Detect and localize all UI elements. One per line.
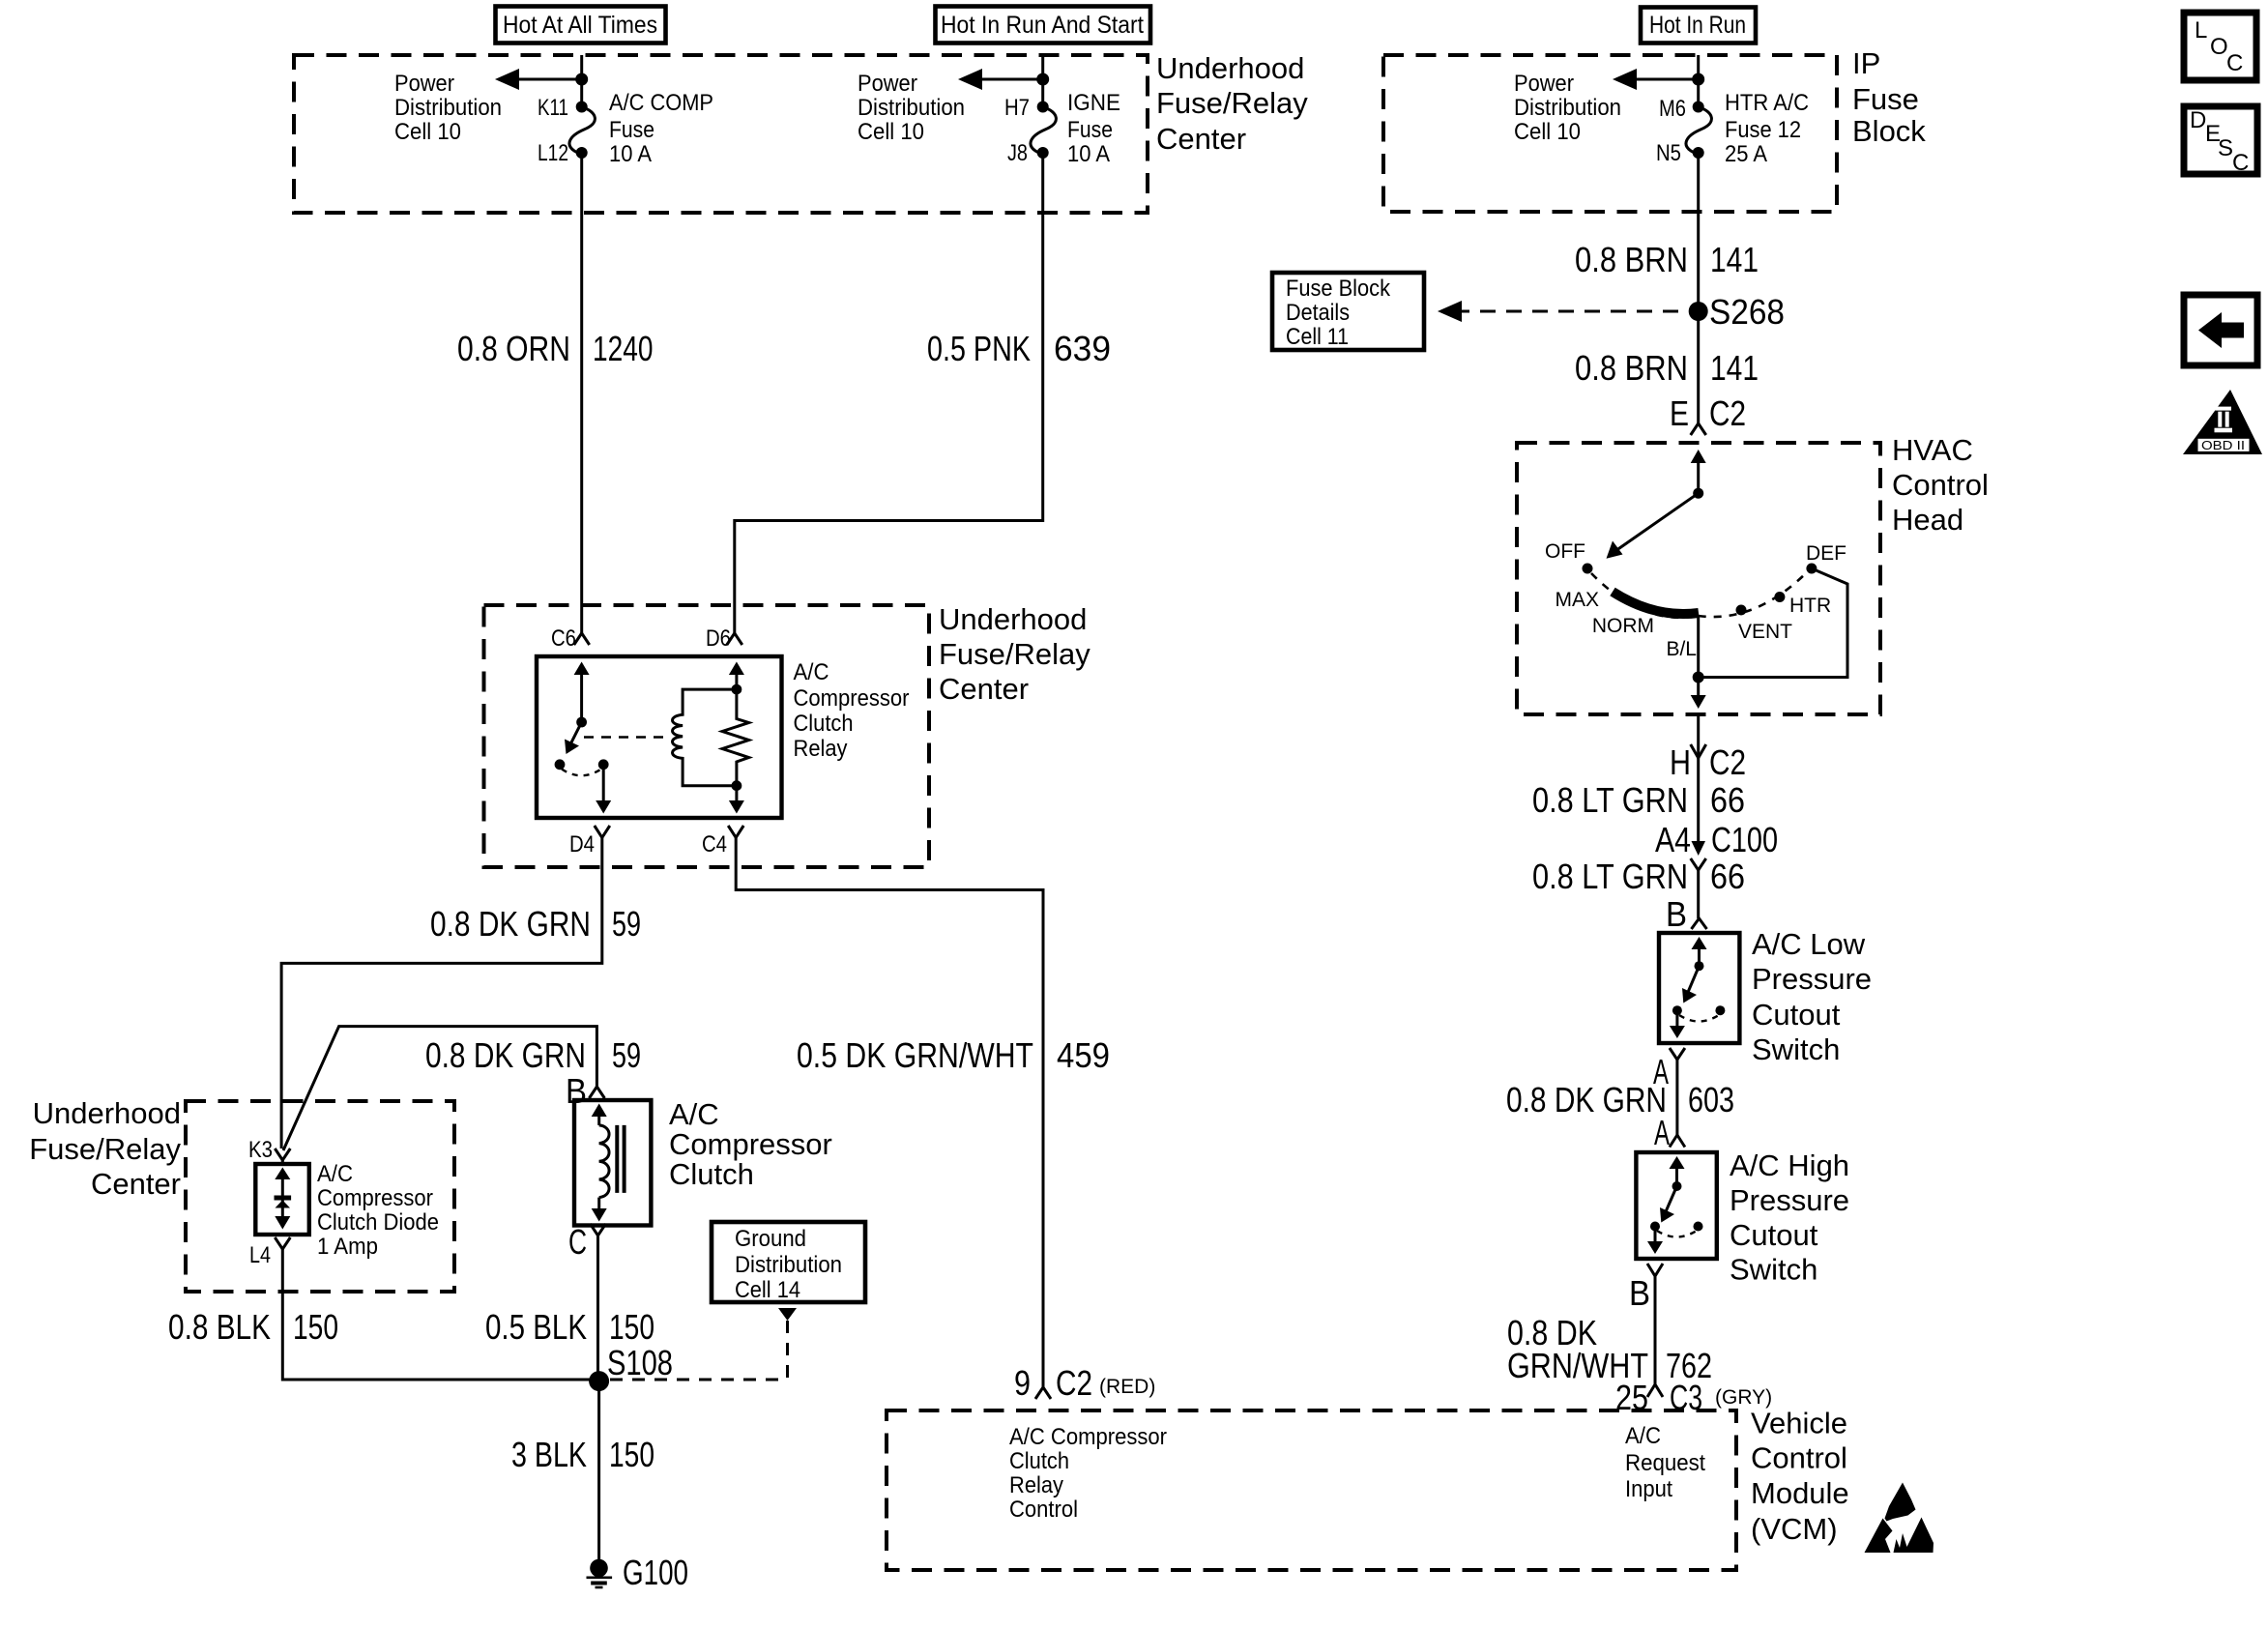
node HTR contact xyxy=(1774,592,1785,602)
wire arrow to Power Distribution Cell 10 (middle) xyxy=(958,69,1043,90)
svg-text:L4: L4 xyxy=(249,1242,271,1268)
svg-text:0.5 DK GRN/WHT: 0.5 DK GRN/WHT xyxy=(797,1035,1033,1075)
svg-text:0.8 LT GRN: 0.8 LT GRN xyxy=(1532,780,1688,820)
wire 0.5 DK GRN/WHT 459 from C4 to VCM xyxy=(736,837,1043,1387)
wire rotary output to C2 pin H xyxy=(1697,616,1700,678)
label Power Distribution Cell 10 (left) xyxy=(394,71,502,145)
wire arrow to Power Distribution Cell 10 (left) xyxy=(495,69,582,90)
module box Underhood Fuse/Relay Center (top) xyxy=(294,55,1148,213)
wire battery feed to fuse K11 xyxy=(580,55,583,106)
value label HTR A/C Fuse 12 25 A xyxy=(1725,90,1809,167)
component box A/C Compressor Clutch xyxy=(574,1100,651,1226)
svg-text:9: 9 xyxy=(1014,1363,1031,1403)
module box Underhood Fuse/Relay Center (diode) xyxy=(186,1101,454,1292)
svg-text:C2: C2 xyxy=(1056,1363,1092,1403)
svg-text:0.8 BRN: 0.8 BRN xyxy=(1575,348,1688,388)
node DEF contact xyxy=(1806,564,1817,574)
svg-text:Switch: Switch xyxy=(1730,1253,1817,1287)
wire dashed to Ground Distribution xyxy=(610,1308,797,1380)
svg-text:VENT: VENT xyxy=(1738,621,1792,643)
reference box Ground Distribution Cell 14 xyxy=(712,1222,865,1303)
icon LOC xyxy=(2184,13,2256,80)
svg-text:Fuse/Relay: Fuse/Relay xyxy=(29,1132,181,1166)
svg-text:Head: Head xyxy=(1892,503,1963,537)
svg-text:B: B xyxy=(1666,894,1687,934)
clutch plates xyxy=(617,1125,624,1193)
connector A4 C100 xyxy=(1655,820,1778,870)
svg-text:150: 150 xyxy=(293,1307,338,1347)
node rotary pivot xyxy=(1693,488,1703,499)
rotary dashed contact arc xyxy=(1591,573,1699,618)
wire 0.8 LT GRN 66 lower xyxy=(1697,870,1700,918)
svg-text:D4: D4 xyxy=(569,831,595,858)
svg-text:A/C: A/C xyxy=(1625,1423,1661,1449)
svg-text:Center: Center xyxy=(1156,122,1246,156)
svg-text:Pressure: Pressure xyxy=(1752,962,1872,996)
svg-text:10 A: 10 A xyxy=(609,141,652,167)
component box A/C Low Pressure Cutout Switch xyxy=(1659,933,1739,1043)
svg-text:59: 59 xyxy=(612,1035,641,1075)
fuse HTR A/C Fuse 12 25 A xyxy=(1686,102,1711,160)
svg-text:Hot In Run And Start: Hot In Run And Start xyxy=(941,12,1144,39)
module box HVAC Control Head xyxy=(1517,443,1880,714)
pin B of clutch xyxy=(566,1071,604,1111)
pin D6 of relay xyxy=(706,625,742,652)
svg-text:10 A: 10 A xyxy=(1067,141,1110,167)
pin E connector C2 xyxy=(1670,393,1746,435)
relay coil feed arrow up xyxy=(729,662,744,690)
label A/C Compressor Clutch Relay Control xyxy=(1009,1424,1167,1523)
component box A/C Compressor Clutch Diode xyxy=(255,1164,309,1235)
svg-text:C: C xyxy=(2226,50,2243,76)
node VENT contact xyxy=(1736,605,1747,616)
label IP Fuse Block xyxy=(1852,46,1926,148)
relay switch contact xyxy=(555,662,612,814)
pin D4 of relay xyxy=(569,826,610,858)
wire 3 BLK 150 xyxy=(597,1381,600,1559)
svg-text:0.8 DK GRN: 0.8 DK GRN xyxy=(1506,1080,1667,1119)
label Power Distribution Cell 10 (right) xyxy=(1514,71,1621,145)
svg-text:0.5 BLK: 0.5 BLK xyxy=(485,1307,587,1347)
svg-text:Control: Control xyxy=(1009,1497,1078,1523)
svg-text:Distribution: Distribution xyxy=(735,1252,842,1278)
svg-text:S268: S268 xyxy=(1709,292,1785,332)
svg-text:Control: Control xyxy=(1751,1441,1847,1475)
svg-text:Compressor: Compressor xyxy=(317,1185,433,1211)
svg-text:J8: J8 xyxy=(1007,140,1028,166)
svg-text:Fuse: Fuse xyxy=(1852,82,1919,116)
svg-text:(VCM): (VCM) xyxy=(1751,1512,1838,1546)
pin K3 of diode xyxy=(248,1137,290,1164)
svg-text:Pressure: Pressure xyxy=(1730,1183,1849,1217)
label A/C Low Pressure Cutout Switch xyxy=(1752,927,1872,1066)
pin A of low pressure switch xyxy=(1653,1048,1685,1091)
svg-text:B: B xyxy=(1629,1273,1650,1313)
value label 0.8 BLK 150 xyxy=(168,1307,338,1347)
pin A of high pressure switch xyxy=(1654,1113,1685,1152)
svg-text:HTR A/C: HTR A/C xyxy=(1725,90,1809,116)
svg-text:IP: IP xyxy=(1852,46,1880,80)
svg-text:D: D xyxy=(2190,107,2206,133)
wire 0.8 BRN 141 upper xyxy=(1697,153,1700,423)
pin B of high pressure switch xyxy=(1629,1264,1663,1313)
svg-text:A: A xyxy=(1654,1113,1670,1152)
wire 0.8 DK GRN 59 branch to clutch xyxy=(283,1027,596,1150)
relay linkage dashed xyxy=(584,736,663,739)
rotary thick contact band MAX-NORM-B/L xyxy=(1613,592,1699,614)
node OFF contact xyxy=(1583,564,1593,574)
svg-text:C: C xyxy=(568,1222,587,1262)
svg-text:A/C High: A/C High xyxy=(1730,1148,1849,1182)
value label 0.8 DK GRN 59 upper xyxy=(430,904,641,944)
node junction at H7 feed xyxy=(1036,73,1049,86)
flag Hot In Run And Start xyxy=(936,7,1151,44)
svg-text:141: 141 xyxy=(1710,348,1759,388)
switch contact (high pressure switch) xyxy=(1647,1156,1703,1254)
svg-text:0.8 LT GRN: 0.8 LT GRN xyxy=(1532,857,1688,896)
wire down arrow to box edge xyxy=(1691,678,1706,710)
component box A/C High Pressure Cutout Switch xyxy=(1636,1152,1716,1259)
svg-text:Center: Center xyxy=(91,1167,181,1201)
label Underhood Fuse/Relay Center (diode) xyxy=(29,1096,181,1201)
svg-text:(RED): (RED) xyxy=(1099,1376,1155,1398)
svg-text:Fuse/Relay: Fuse/Relay xyxy=(939,637,1090,671)
label A/C Request Input xyxy=(1625,1423,1705,1502)
svg-text:OFF: OFF xyxy=(1545,540,1585,563)
value label 0.8 ORN 1240 xyxy=(457,329,654,368)
svg-text:Fuse Block: Fuse Block xyxy=(1286,276,1391,302)
relay coil output arrow down xyxy=(729,786,744,814)
value label 0.8 DK GRN 59 lower xyxy=(425,1035,641,1075)
svg-text:459: 459 xyxy=(1057,1035,1110,1075)
svg-text:Cell 10: Cell 10 xyxy=(858,119,924,145)
value label 0.5 BLK 150 xyxy=(485,1307,654,1347)
svg-text:Relay: Relay xyxy=(794,736,848,762)
node S268 xyxy=(1689,292,1785,332)
value label 0.8 BRN 141 upper xyxy=(1575,240,1759,279)
svg-text:Cutout: Cutout xyxy=(1752,998,1841,1032)
svg-text:A/C: A/C xyxy=(317,1161,353,1187)
pin C of clutch xyxy=(568,1222,606,1262)
pin 25 connector C3 (GRY) xyxy=(1615,1378,1772,1417)
svg-text:1240: 1240 xyxy=(593,329,654,368)
wire 0.8 BLK 150 xyxy=(282,1249,593,1380)
svg-text:Power: Power xyxy=(394,71,454,97)
svg-text:A/C Low: A/C Low xyxy=(1752,927,1866,961)
svg-text:1 Amp: 1 Amp xyxy=(317,1234,378,1260)
node junction at K11 feed xyxy=(575,73,588,86)
svg-text:C100: C100 xyxy=(1711,820,1778,859)
svg-text:Cell 14: Cell 14 xyxy=(735,1277,800,1303)
svg-text:66: 66 xyxy=(1710,780,1745,820)
svg-text:K3: K3 xyxy=(248,1137,273,1163)
module box Vehicle Control Module (VCM) xyxy=(887,1410,1736,1570)
fuse A/C COMP Fuse 10 A xyxy=(569,102,595,160)
svg-text:Input: Input xyxy=(1625,1476,1672,1502)
svg-text:G100: G100 xyxy=(623,1553,688,1592)
wire 0.8 DK GRN 603 xyxy=(1675,1060,1678,1135)
svg-text:0.8 DK GRN: 0.8 DK GRN xyxy=(430,904,591,944)
component box A/C Compressor Clutch Relay xyxy=(537,656,782,818)
node junction at M6 feed xyxy=(1692,73,1704,86)
pin 9 connector C2 (RED) xyxy=(1014,1363,1155,1403)
svg-text:Fuse: Fuse xyxy=(609,117,654,143)
svg-text:O: O xyxy=(2210,34,2228,60)
wire 0.8 BRN 141 lower xyxy=(1575,348,1759,388)
svg-text:Hot In Run: Hot In Run xyxy=(1649,12,1746,39)
svg-text:0.5 PNK: 0.5 PNK xyxy=(927,329,1031,368)
svg-text:Clutch: Clutch xyxy=(794,711,854,737)
ESD sensitivity symbol xyxy=(1865,1483,1934,1554)
wire arrow to Power Distribution Cell 10 (right) xyxy=(1613,69,1699,90)
svg-text:B/L: B/L xyxy=(1666,638,1697,660)
wire 0.8 DK GRN 59 from D4 xyxy=(281,837,602,1148)
node S108 xyxy=(589,1343,673,1391)
wire 0.8 LT GRN 66 upper xyxy=(1697,714,1700,851)
pin C4 of relay xyxy=(702,826,743,858)
icon OBD II xyxy=(2183,390,2262,454)
svg-text:Underhood: Underhood xyxy=(1156,51,1304,85)
svg-text:A/C: A/C xyxy=(669,1097,719,1131)
svg-text:150: 150 xyxy=(609,1435,654,1474)
svg-text:Block: Block xyxy=(1852,114,1926,148)
svg-text:603: 603 xyxy=(1688,1080,1734,1119)
label Vehicle Control Module (VCM) xyxy=(1751,1407,1849,1547)
svg-text:HTR: HTR xyxy=(1789,595,1831,617)
svg-text:150: 150 xyxy=(609,1307,654,1347)
svg-text:Ground: Ground xyxy=(735,1226,806,1252)
label Power Distribution Cell 10 (middle) xyxy=(858,71,965,145)
value label 0.5 DK GRN/WHT 459 xyxy=(797,1035,1110,1075)
svg-text:3 BLK: 3 BLK xyxy=(511,1435,587,1474)
svg-text:Control: Control xyxy=(1892,468,1989,502)
svg-text:Cutout: Cutout xyxy=(1730,1218,1818,1252)
module box IP Fuse Block xyxy=(1383,55,1837,212)
svg-text:Hot At All Times: Hot At All Times xyxy=(503,12,657,39)
node rotary output junction xyxy=(1693,672,1704,683)
svg-text:D6: D6 xyxy=(706,625,731,652)
svg-text:A/C: A/C xyxy=(794,659,829,685)
wire dashed arrow to Fuse Block Details xyxy=(1438,301,1694,322)
svg-text:N5: N5 xyxy=(1656,140,1681,166)
label Underhood Fuse/Relay Center (relay) xyxy=(939,602,1090,706)
svg-text:Distribution: Distribution xyxy=(1514,95,1621,121)
pin C6 of relay xyxy=(551,625,590,652)
flag Hot In Run xyxy=(1641,8,1756,44)
icon back arrow xyxy=(2184,295,2257,365)
reference box Fuse Block Details Cell 11 xyxy=(1272,273,1424,350)
ground G100 xyxy=(587,1553,689,1592)
svg-text:Compressor: Compressor xyxy=(669,1127,832,1161)
svg-text:59: 59 xyxy=(612,904,641,944)
svg-text:0.8 BLK: 0.8 BLK xyxy=(168,1307,271,1347)
svg-text:Underhood: Underhood xyxy=(939,602,1087,636)
wire 0.8 ORN 1240 xyxy=(580,153,583,633)
svg-text:66: 66 xyxy=(1710,857,1745,896)
svg-text:Relay: Relay xyxy=(1009,1472,1063,1498)
svg-text:Center: Center xyxy=(939,672,1029,706)
svg-text:Fuse: Fuse xyxy=(1067,117,1113,143)
svg-text:Distribution: Distribution xyxy=(858,95,965,121)
svg-text:A4: A4 xyxy=(1655,820,1691,859)
pin L4 of diode xyxy=(249,1237,290,1268)
switch contact B (low pressure switch) xyxy=(1670,937,1726,1038)
wire 0.5 BLK 150 xyxy=(596,1236,599,1380)
svg-text:C6: C6 xyxy=(551,625,576,652)
svg-text:141: 141 xyxy=(1710,240,1759,279)
svg-text:Underhood: Underhood xyxy=(33,1096,181,1130)
pin H connector C2 xyxy=(1670,742,1746,782)
svg-text:Module: Module xyxy=(1751,1476,1849,1510)
svg-text:Switch: Switch xyxy=(1752,1032,1840,1066)
svg-text:C2: C2 xyxy=(1709,742,1746,782)
value label A/C COMP Fuse 10 A xyxy=(609,90,713,167)
svg-text:A/C COMP: A/C COMP xyxy=(609,90,713,116)
svg-text:C: C xyxy=(2232,150,2249,176)
svg-text:Cell 10: Cell 10 xyxy=(1514,119,1581,145)
module box Underhood Fuse/Relay Center (relay) xyxy=(484,605,930,867)
svg-text:L12: L12 xyxy=(538,140,568,166)
wire ignition feed to fuse H7 xyxy=(1041,55,1044,106)
svg-text:H: H xyxy=(1670,742,1691,782)
relay coil xyxy=(673,684,742,786)
wire run feed to fuse M6 xyxy=(1697,55,1700,106)
svg-text:E: E xyxy=(1670,393,1689,433)
relay coil resistor xyxy=(722,689,749,791)
svg-text:0.8 ORN: 0.8 ORN xyxy=(457,329,570,368)
svg-text:Fuse 12: Fuse 12 xyxy=(1725,117,1801,143)
svg-text:Details: Details xyxy=(1286,300,1350,326)
svg-text:A/C Compressor: A/C Compressor xyxy=(1009,1424,1167,1450)
svg-text:639: 639 xyxy=(1054,329,1111,368)
svg-text:0.8 BRN: 0.8 BRN xyxy=(1575,240,1688,279)
value label 0.5 PNK 639 xyxy=(927,329,1111,368)
svg-text:C2: C2 xyxy=(1709,393,1746,433)
svg-text:Clutch Diode: Clutch Diode xyxy=(317,1209,439,1236)
svg-text:NORM: NORM xyxy=(1592,615,1654,637)
wire 0.5 PNK 639 xyxy=(735,153,1043,633)
svg-text:L: L xyxy=(2195,17,2207,44)
svg-text:S: S xyxy=(2218,135,2233,161)
svg-text:HVAC: HVAC xyxy=(1892,433,1973,467)
svg-text:Power: Power xyxy=(1514,71,1574,97)
svg-text:Cell 10: Cell 10 xyxy=(394,119,461,145)
label A/C Compressor Clutch Relay xyxy=(794,659,910,762)
svg-text:S108: S108 xyxy=(607,1343,673,1382)
svg-text:Fuse/Relay: Fuse/Relay xyxy=(1156,86,1308,120)
svg-text:MAX: MAX xyxy=(1555,589,1599,611)
svg-text:OBD II: OBD II xyxy=(2201,438,2245,452)
svg-text:H7: H7 xyxy=(1004,95,1030,121)
label Underhood Fuse/Relay Center (top) xyxy=(1156,51,1308,156)
rotary wiper arm toward OFF xyxy=(1607,493,1699,559)
svg-text:0.8 DK GRN: 0.8 DK GRN xyxy=(425,1035,586,1075)
wire 0.8 DK GRN/WHT 762 xyxy=(1654,1276,1657,1384)
pin B of low pressure switch xyxy=(1666,894,1707,934)
icon DESC xyxy=(2184,106,2257,176)
svg-text:IGNE: IGNE xyxy=(1067,90,1120,116)
svg-text:Clutch: Clutch xyxy=(669,1157,754,1191)
label HVAC Control Head xyxy=(1892,433,1989,537)
svg-text:Clutch: Clutch xyxy=(1009,1448,1069,1474)
svg-text:K11: K11 xyxy=(538,95,568,121)
flag Hot At All Times xyxy=(496,7,666,44)
svg-text:Compressor: Compressor xyxy=(794,685,910,712)
svg-text:25 A: 25 A xyxy=(1725,141,1767,167)
svg-text:Distribution: Distribution xyxy=(394,95,502,121)
wire DEF loop branch xyxy=(1699,568,1847,678)
clutch coil L xyxy=(592,1104,609,1222)
label A/C High Pressure Cutout Switch xyxy=(1730,1148,1849,1287)
diode CR (A/C compressor clutch diode) xyxy=(275,1168,292,1230)
wire HVAC feed with up arrow xyxy=(1691,450,1706,493)
svg-text:M6: M6 xyxy=(1659,96,1686,122)
svg-text:Power: Power xyxy=(858,71,917,97)
svg-text:Request: Request xyxy=(1625,1450,1705,1476)
label A/C Compressor Clutch Diode 1 Amp xyxy=(317,1161,439,1260)
value label IGNE Fuse 10 A xyxy=(1067,90,1120,167)
label A/C Compressor Clutch xyxy=(669,1097,832,1191)
svg-text:C4: C4 xyxy=(702,831,727,858)
svg-text:DEF: DEF xyxy=(1806,542,1846,565)
value label 3 BLK 150 xyxy=(511,1435,654,1474)
svg-text:Vehicle: Vehicle xyxy=(1751,1407,1847,1440)
svg-text:Cell 11: Cell 11 xyxy=(1286,324,1349,350)
fuse IGNE Fuse 10 A xyxy=(1031,102,1056,160)
